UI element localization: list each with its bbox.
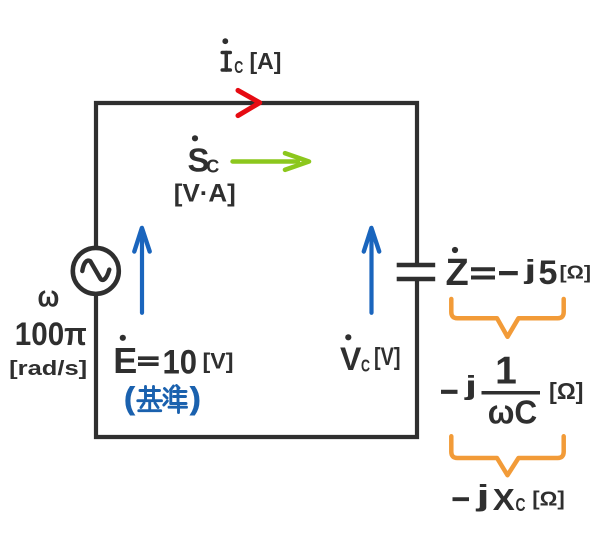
- svg-text:(: (: [124, 381, 135, 416]
- voltage arrow E (blue): [134, 228, 149, 313]
- svg-text:C: C: [516, 494, 526, 515]
- svg-text:j: j: [523, 255, 536, 285]
- svg-text:100π: 100π: [15, 316, 87, 352]
- kanji KI (base): [138, 387, 162, 411]
- svg-text:5: 5: [539, 254, 558, 292]
- svg-text:X: X: [493, 482, 515, 517]
- label Ic [A]: [222, 38, 281, 77]
- current arrow Ic (red): [238, 90, 260, 115]
- ac source V1: [73, 248, 119, 294]
- svg-text:[rad/s]: [rad/s]: [9, 358, 87, 380]
- svg-text:ω: ω: [38, 281, 60, 314]
- label -j 1/(omega C) [ohm]: [441, 350, 584, 431]
- label (kijun) reference in blue: [124, 381, 200, 416]
- label Vc [V]: [340, 334, 401, 377]
- svg-text:j: j: [464, 370, 477, 401]
- svg-text:): ): [190, 381, 200, 416]
- svg-text:10: 10: [163, 343, 198, 381]
- label E = 10 [V]: [113, 335, 233, 382]
- brace 2 (orange): [451, 436, 563, 475]
- svg-text:C: C: [234, 57, 243, 77]
- svg-text:[V]: [V]: [203, 349, 234, 374]
- svg-text:V: V: [340, 341, 362, 377]
- svg-text:1: 1: [495, 350, 517, 393]
- brace 1 (orange): [451, 299, 563, 337]
- svg-text:E: E: [113, 340, 137, 381]
- label Sc: [188, 135, 220, 178]
- svg-text:[Ω]: [Ω]: [532, 489, 565, 511]
- svg-text:Z: Z: [446, 252, 469, 294]
- svg-text:j: j: [475, 479, 489, 512]
- svg-text:C: C: [206, 157, 219, 177]
- svg-text:[V]: [V]: [374, 343, 401, 371]
- voltage arrow Vc (blue): [364, 228, 379, 313]
- svg-text:[Ω]: [Ω]: [560, 263, 592, 283]
- label -j Xc [ohm]: [453, 479, 565, 517]
- wire main loop: [96, 103, 417, 437]
- svg-text:[A]: [A]: [250, 48, 282, 74]
- power arrow Sc (green): [233, 153, 310, 170]
- svg-text:C: C: [361, 356, 370, 376]
- label Z = -j5 [ohm]: [446, 247, 592, 294]
- svg-text:ωC: ωC: [488, 394, 538, 431]
- capacitor C: [397, 265, 436, 279]
- kanji JUN (standard): [164, 386, 187, 413]
- svg-text:[Ω]: [Ω]: [549, 378, 584, 404]
- svg-text:[V·A]: [V·A]: [174, 180, 236, 208]
